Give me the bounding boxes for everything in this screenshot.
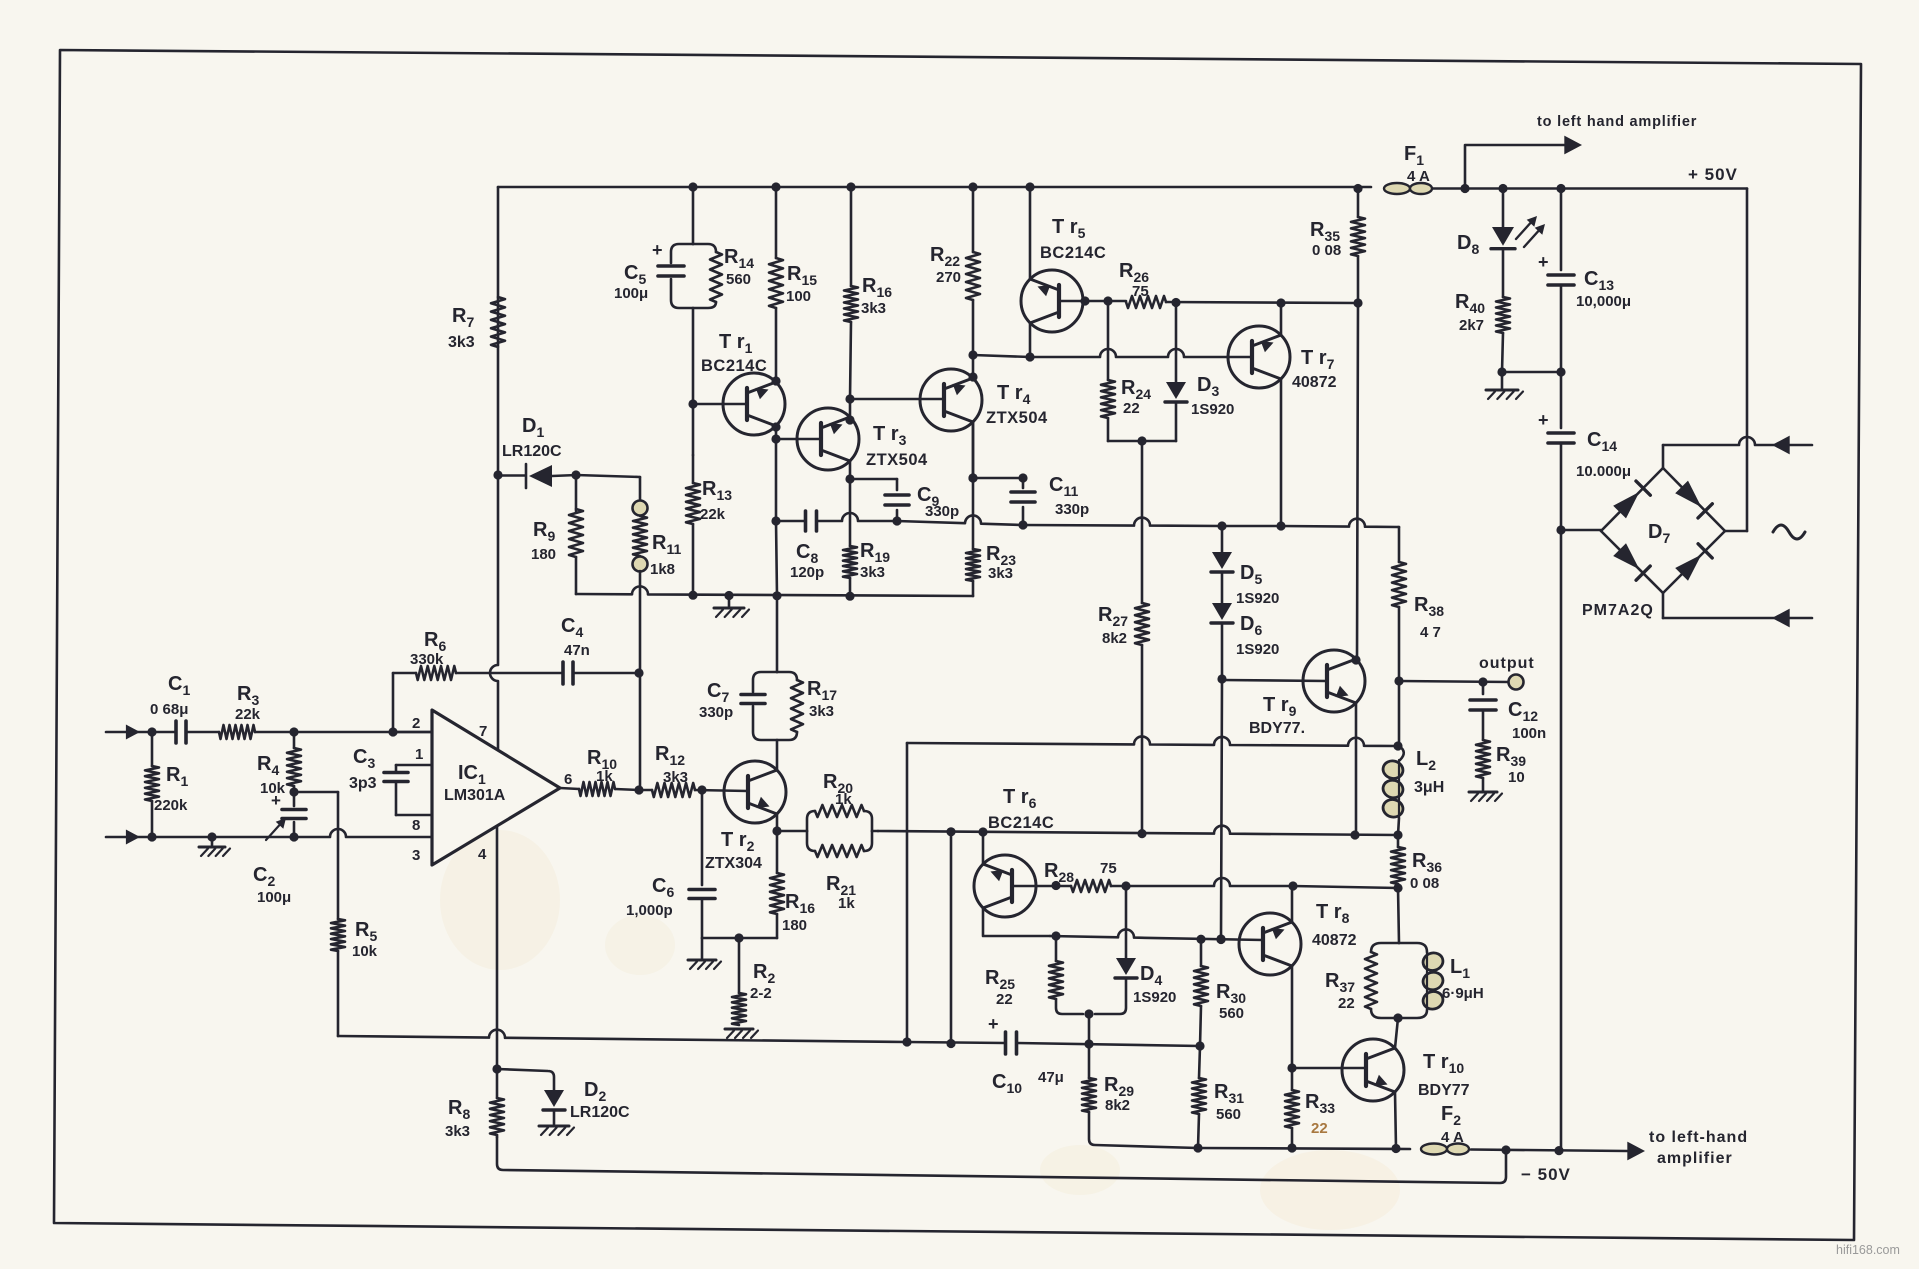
svg-text:40872: 40872 <box>1292 374 1337 391</box>
svg-text:22: 22 <box>1338 995 1355 1012</box>
svg-text:BDY77: BDY77 <box>1418 1082 1470 1099</box>
svg-text:BC214C: BC214C <box>701 357 767 375</box>
svg-text:0 08: 0 08 <box>1410 875 1439 892</box>
svg-text:22k: 22k <box>235 706 261 723</box>
svg-text:2k7: 2k7 <box>1459 317 1484 334</box>
svg-text:100μ: 100μ <box>257 889 291 906</box>
svg-text:2: 2 <box>412 715 420 732</box>
svg-text:hifi168.com: hifi168.com <box>1836 1243 1900 1257</box>
svg-text:to left hand amplifier: to left hand amplifier <box>1537 114 1697 130</box>
svg-text:330k: 330k <box>410 651 444 668</box>
svg-text:10k: 10k <box>352 943 378 960</box>
svg-text:8: 8 <box>412 817 420 834</box>
svg-text:ZTX304: ZTX304 <box>705 855 762 872</box>
svg-text:560: 560 <box>1216 1106 1241 1123</box>
svg-text:3k3: 3k3 <box>860 564 885 581</box>
svg-text:4 A: 4 A <box>1407 168 1430 185</box>
svg-text:BC214C: BC214C <box>1040 244 1106 262</box>
svg-text:22: 22 <box>996 991 1013 1008</box>
svg-text:1S920: 1S920 <box>1191 401 1234 418</box>
svg-text:+ 50V: + 50V <box>1688 165 1738 184</box>
svg-text:10.000μ: 10.000μ <box>1576 463 1631 480</box>
svg-text:LR120C: LR120C <box>502 443 562 460</box>
svg-text:330p: 330p <box>1055 501 1089 518</box>
svg-text:100n: 100n <box>1512 725 1546 742</box>
svg-text:1k: 1k <box>835 791 852 808</box>
svg-text:270: 270 <box>936 269 961 286</box>
svg-text:+: + <box>988 1014 999 1034</box>
svg-text:3μH: 3μH <box>1414 779 1444 796</box>
svg-text:560: 560 <box>726 271 751 288</box>
svg-text:10: 10 <box>1508 769 1525 786</box>
svg-text:1S920: 1S920 <box>1236 590 1279 607</box>
svg-text:4 7: 4 7 <box>1420 624 1441 641</box>
svg-text:ZTX504: ZTX504 <box>866 451 928 469</box>
svg-text:+: + <box>1538 410 1549 430</box>
svg-text:3k3: 3k3 <box>988 565 1013 582</box>
svg-text:4 A: 4 A <box>1441 1129 1464 1146</box>
svg-text:330p: 330p <box>925 503 959 520</box>
svg-text:LR120C: LR120C <box>570 1104 630 1121</box>
svg-text:− 50V: − 50V <box>1521 1165 1571 1184</box>
svg-text:to left-hand: to left-hand <box>1649 1129 1748 1146</box>
svg-text:amplifier: amplifier <box>1657 1150 1733 1167</box>
svg-text:1,000p: 1,000p <box>626 902 673 919</box>
svg-text:120p: 120p <box>790 564 824 581</box>
svg-text:220k: 220k <box>154 797 188 814</box>
svg-text:2-2: 2-2 <box>750 985 772 1002</box>
svg-text:180: 180 <box>782 917 807 934</box>
svg-text:1k8: 1k8 <box>650 561 675 578</box>
svg-text:560: 560 <box>1219 1005 1244 1022</box>
svg-text:180: 180 <box>531 546 556 563</box>
svg-text:3k3: 3k3 <box>861 300 886 317</box>
svg-text:47n: 47n <box>564 642 590 659</box>
svg-text:1S920: 1S920 <box>1133 989 1176 1006</box>
svg-text:1: 1 <box>415 746 423 763</box>
svg-text:6: 6 <box>564 771 572 788</box>
svg-text:6·9μH: 6·9μH <box>1442 985 1484 1002</box>
svg-text:ZTX504: ZTX504 <box>986 409 1048 427</box>
svg-text:8k2: 8k2 <box>1102 630 1127 647</box>
svg-text:47μ: 47μ <box>1038 1069 1064 1086</box>
svg-text:100: 100 <box>786 288 811 305</box>
svg-text:75: 75 <box>1132 283 1149 300</box>
svg-text:100μ: 100μ <box>614 285 648 302</box>
svg-text:10,000μ: 10,000μ <box>1576 293 1631 310</box>
svg-text:0 08: 0 08 <box>1312 242 1341 259</box>
svg-text:output: output <box>1479 655 1535 672</box>
svg-text:7: 7 <box>479 723 487 740</box>
svg-text:8k2: 8k2 <box>1105 1097 1130 1114</box>
svg-text:75: 75 <box>1100 860 1117 877</box>
svg-text:0 68μ: 0 68μ <box>150 701 188 718</box>
svg-text:22k: 22k <box>700 506 726 523</box>
svg-text:BC214C: BC214C <box>988 814 1054 832</box>
svg-text:1k: 1k <box>838 895 855 912</box>
svg-text:10k: 10k <box>260 780 286 797</box>
svg-text:3k3: 3k3 <box>448 334 475 351</box>
svg-text:3k3: 3k3 <box>445 1123 470 1140</box>
svg-text:3k3: 3k3 <box>809 703 834 720</box>
svg-text:330p: 330p <box>699 704 733 721</box>
svg-text:22: 22 <box>1123 400 1140 417</box>
svg-text:PM7A2Q: PM7A2Q <box>1582 602 1654 619</box>
svg-text:1k: 1k <box>596 768 613 785</box>
svg-text:1S920: 1S920 <box>1236 641 1279 658</box>
svg-text:22: 22 <box>1311 1120 1328 1137</box>
svg-text:40872: 40872 <box>1312 932 1357 949</box>
svg-text:+: + <box>1538 252 1549 272</box>
svg-text:3p3: 3p3 <box>349 775 377 792</box>
svg-text:LM301A: LM301A <box>444 787 506 804</box>
svg-text:+: + <box>652 240 663 260</box>
svg-text:3k3: 3k3 <box>663 769 688 786</box>
svg-text:3: 3 <box>412 847 420 864</box>
svg-text:4: 4 <box>478 846 487 863</box>
svg-text:BDY77.: BDY77. <box>1249 720 1305 737</box>
